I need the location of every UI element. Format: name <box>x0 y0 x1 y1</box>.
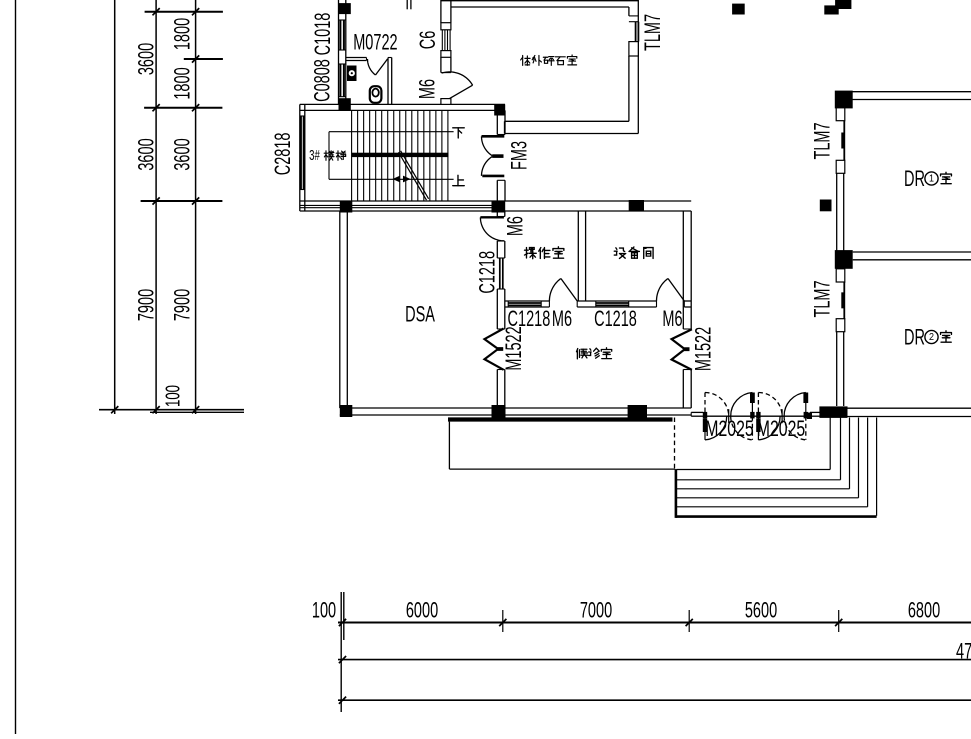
svg-text:2: 2 <box>929 332 934 344</box>
svg-text:TLM7: TLM7 <box>810 280 835 317</box>
svg-text:DR: DR <box>904 166 925 191</box>
svg-text:7900: 7900 <box>134 289 159 321</box>
svg-text:TLM7: TLM7 <box>640 14 665 51</box>
svg-text:6800: 6800 <box>908 598 940 623</box>
svg-text:M6: M6 <box>502 216 527 236</box>
svg-text:C1218: C1218 <box>508 306 551 331</box>
svg-text:5600: 5600 <box>745 598 777 623</box>
svg-text:DSA: DSA <box>405 302 435 327</box>
svg-text:M6: M6 <box>415 79 440 99</box>
svg-text:M2025: M2025 <box>705 417 753 441</box>
svg-text:100: 100 <box>162 385 184 407</box>
svg-text:1800: 1800 <box>169 67 194 99</box>
svg-text:1: 1 <box>929 173 934 185</box>
svg-text:TLM7: TLM7 <box>810 122 835 159</box>
svg-text:M0722: M0722 <box>353 29 397 54</box>
svg-text:100: 100 <box>312 598 336 623</box>
svg-text:477: 477 <box>956 639 971 664</box>
svg-text:6000: 6000 <box>406 598 438 623</box>
svg-text:1800: 1800 <box>169 18 194 50</box>
svg-text:3600: 3600 <box>134 43 159 75</box>
svg-text:C2818: C2818 <box>270 133 295 176</box>
svg-text:C1218: C1218 <box>594 306 637 331</box>
svg-text:7000: 7000 <box>580 598 612 623</box>
svg-text:M6: M6 <box>662 306 682 331</box>
svg-text:M6: M6 <box>552 306 572 331</box>
svg-text:FM3: FM3 <box>507 141 532 170</box>
svg-text:C6: C6 <box>415 31 440 50</box>
svg-text:M1522: M1522 <box>501 326 526 370</box>
svg-text:3#: 3# <box>309 147 320 164</box>
svg-text:C1018: C1018 <box>310 13 335 56</box>
svg-text:3600: 3600 <box>169 138 194 170</box>
svg-text:C0808: C0808 <box>310 59 335 102</box>
svg-text:M1522: M1522 <box>691 327 716 371</box>
svg-text:3600: 3600 <box>134 138 159 170</box>
svg-text:M2025: M2025 <box>757 417 805 441</box>
svg-text:C1218: C1218 <box>474 251 499 294</box>
svg-text:DR: DR <box>904 325 925 350</box>
svg-text:7900: 7900 <box>169 289 194 321</box>
